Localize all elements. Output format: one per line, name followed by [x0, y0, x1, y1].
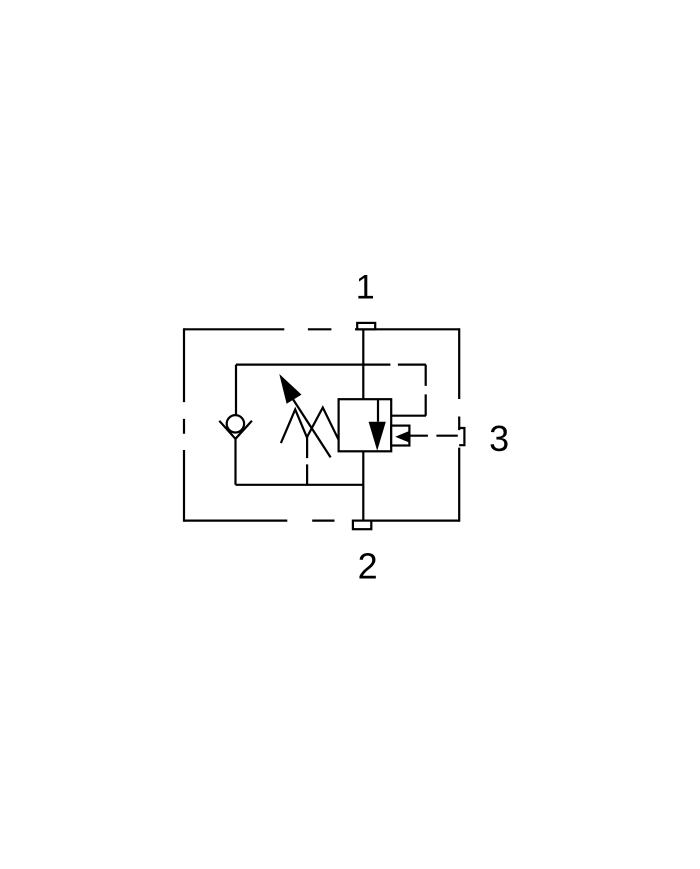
relief valve body	[339, 399, 392, 451]
adjustment arrow shaft	[293, 399, 331, 458]
pilot line to port 3 (dashed)	[410, 435, 458, 437]
wire port 1 to valve body	[362, 329, 364, 399]
svg-text:3: 3	[489, 418, 509, 459]
svg-text:1: 1	[356, 268, 375, 306]
port 2 marker	[353, 521, 371, 530]
boundary bottom edge (dashed)	[184, 519, 459, 521]
boundary left edge (dashed)	[183, 328, 185, 522]
svg-text:2: 2	[358, 545, 378, 586]
boundary right edge (dashed)	[458, 328, 460, 522]
relief valve internal flow line	[377, 399, 379, 422]
pilot loop right vertical (dashed)	[425, 365, 427, 416]
pilot loop bottom connector	[390, 415, 426, 417]
wire branch bottom	[236, 484, 364, 486]
wire branch left lower	[234, 439, 236, 485]
check valve circle	[227, 415, 244, 432]
wire valve body to port 2	[362, 451, 364, 520]
port 1 marker	[357, 323, 375, 329]
wire branch top	[236, 364, 390, 366]
pilot loop top dash	[398, 364, 426, 366]
wire branch left upper	[235, 365, 237, 415]
adjustment arrow head	[279, 374, 301, 404]
relief valve internal flow arrow	[369, 422, 386, 451]
spring	[281, 408, 339, 444]
boundary top edge (dashed)	[184, 328, 459, 330]
pilot box	[391, 426, 409, 446]
check valve seat	[219, 421, 252, 439]
drain line (dashed)	[306, 437, 308, 485]
pilot arrow	[395, 431, 410, 443]
port 3 marker	[459, 428, 464, 445]
